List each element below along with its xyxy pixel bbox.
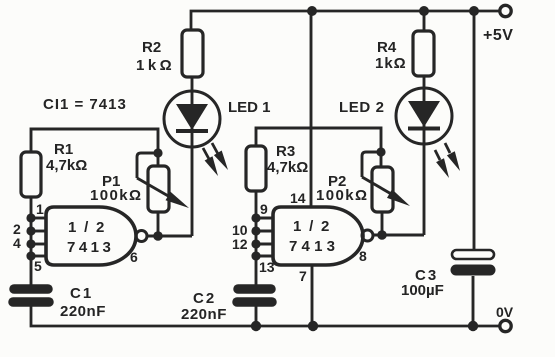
wire R3 bottom to C2 input column — [255, 191, 258, 285]
wire R3 top to P2 top — [256, 128, 381, 167]
resistor R4 — [413, 31, 434, 76]
wire output node to LED1 cathode — [147, 235, 192, 238]
wire +5V rail — [191, 11, 500, 30]
pin stub 4 — [31, 243, 46, 246]
wire +5V rail to C3 — [473, 11, 476, 250]
pin stub 12 — [256, 243, 273, 246]
node pin5 — [26, 251, 35, 260]
op IC gate U1b body 1/2 7413 — [273, 207, 363, 265]
terminal +5V — [500, 5, 511, 16]
wire R2 bottom through LED1 to output node — [191, 77, 194, 236]
node pin4 — [26, 239, 35, 248]
node pin1 — [26, 213, 35, 222]
svg-text:14: 14 — [290, 190, 306, 206]
svg-text:CI1 = 7413: CI1 = 7413 — [43, 96, 127, 113]
svg-text:LED 2: LED 2 — [339, 99, 385, 116]
node P2 wiper junction — [376, 147, 385, 156]
wire P2 bottom to output node — [381, 211, 384, 235]
node pin9 — [251, 213, 260, 222]
svg-text:1: 1 — [36, 201, 44, 217]
wire R1 bottom to C1 input column — [30, 197, 33, 285]
svg-text:1 / 2: 1 / 2 — [68, 219, 106, 236]
pin stub 1 — [31, 217, 46, 220]
svg-text:6: 6 — [130, 249, 138, 265]
svg-text:5: 5 — [34, 258, 42, 274]
wire C3 bottom to rail — [472, 276, 475, 326]
svg-text:1 / 2: 1 / 2 — [293, 218, 331, 235]
LED2 light arrow a — [435, 150, 449, 178]
LED2 light arrow b — [445, 143, 460, 171]
svg-text:4,7kΩ: 4,7kΩ — [46, 157, 87, 174]
svg-text:9: 9 — [260, 201, 268, 217]
wire pin7 to 0V rail — [311, 265, 314, 326]
potentiometer P2 — [372, 167, 393, 212]
capacitor C3 positive plate — [452, 250, 494, 259]
svg-text:LED 1: LED 1 — [228, 99, 271, 116]
op IC gate U1a body 1/2 7413 — [46, 207, 136, 265]
node gate2 output junction — [377, 230, 387, 240]
P1 wiper arrow — [137, 178, 189, 208]
svg-text:1kΩ: 1kΩ — [136, 57, 175, 74]
LED1 light arrow b — [212, 143, 228, 170]
wire R1 top to P1 top — [31, 129, 158, 166]
pin stub 13 — [256, 255, 273, 258]
svg-text:0V: 0V — [496, 304, 514, 320]
node rail to R4 — [419, 6, 429, 16]
svg-text:12: 12 — [232, 236, 248, 252]
svg-text:C1: C1 — [70, 285, 93, 302]
node gate1 output junction — [153, 231, 163, 241]
wire pin14 to +5V rail — [310, 11, 313, 207]
svg-text:220nF: 220nF — [181, 306, 227, 323]
P2 wiper arrow — [362, 177, 410, 206]
potentiometer P1 — [148, 166, 169, 212]
node rail C3 — [468, 321, 478, 331]
pin stub 10 — [256, 230, 273, 233]
pin stub 9 — [256, 217, 273, 220]
capacitor C1 — [13, 289, 49, 302]
wire R4 top — [423, 11, 426, 31]
node pin10 — [251, 226, 260, 235]
resistor R3 — [246, 146, 266, 191]
pin stub 2 — [31, 230, 46, 233]
wire C1 bottom and 0V rail — [31, 306, 499, 326]
resistor R1 — [21, 152, 41, 197]
wire P1 bottom to output node — [157, 212, 160, 236]
capacitor C3 negative plate — [456, 265, 490, 276]
svg-text:7413: 7413 — [289, 238, 339, 255]
wire output node to LED2 cathode — [373, 234, 424, 237]
pin stub 5 — [31, 255, 46, 258]
LED1 light arrow a — [203, 148, 218, 176]
node pin13 — [251, 251, 260, 260]
node pin2 — [26, 226, 35, 235]
svg-text:C2: C2 — [193, 290, 216, 307]
svg-text:4,7kΩ: 4,7kΩ — [267, 159, 308, 176]
svg-text:7413: 7413 — [67, 239, 114, 256]
node P1 wiper junction — [153, 148, 162, 157]
terminal 0V — [500, 320, 511, 331]
svg-text:R3: R3 — [276, 143, 295, 160]
svg-text:100kΩ: 100kΩ — [316, 187, 368, 204]
P2 wiper wire — [362, 152, 381, 177]
svg-text:100kΩ: 100kΩ — [90, 187, 142, 204]
svg-text:4: 4 — [13, 235, 21, 251]
svg-text:220nF: 220nF — [60, 303, 106, 320]
node rail to C3 — [469, 6, 479, 16]
svg-text:R1: R1 — [54, 141, 73, 158]
node rail pin7 — [308, 321, 318, 331]
P1 wiper wire — [137, 153, 158, 178]
node pin12 — [251, 239, 260, 248]
svg-text:+5V: +5V — [483, 27, 513, 44]
wire R4 bottom through LED2 to output node — [423, 76, 426, 235]
svg-text:1kΩ: 1kΩ — [375, 55, 407, 72]
wire C2 bottom to rail — [255, 306, 258, 326]
LED LED1 — [164, 91, 220, 147]
resistor R2 — [182, 30, 203, 77]
svg-text:7: 7 — [299, 268, 307, 284]
svg-text:13: 13 — [259, 259, 275, 275]
svg-text:100µF: 100µF — [401, 282, 444, 299]
U1b output bubble pin8 — [362, 230, 373, 241]
svg-text:8: 8 — [359, 248, 367, 264]
U1a output bubble pin6 — [136, 231, 147, 242]
LED LED2 — [396, 88, 452, 144]
capacitor C2 — [237, 289, 272, 302]
node rail to CI pin14 — [307, 6, 317, 16]
svg-text:R4: R4 — [377, 39, 397, 56]
node rail C2 — [251, 321, 261, 331]
svg-text:R2: R2 — [142, 39, 161, 56]
